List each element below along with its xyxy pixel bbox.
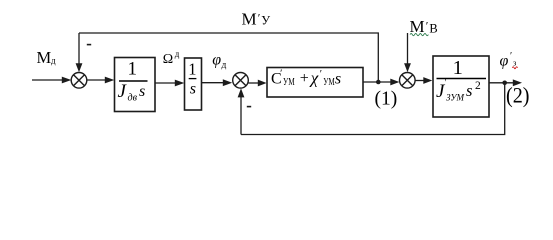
svg-text:s: s: [466, 81, 472, 100]
spell squiggle under phi'z subscript: [512, 67, 517, 69]
label phi'z (output): [500, 51, 518, 70]
svg-text:дв: дв: [128, 92, 138, 103]
svg-text:д: д: [175, 49, 180, 59]
label Omega^d: [163, 49, 180, 67]
svg-text:(2): (2): [506, 84, 530, 108]
summing junction S3: [400, 73, 416, 89]
block G4 fraction bar: [437, 78, 487, 80]
svg-text:УМ: УМ: [283, 77, 295, 88]
block G4 box: [433, 56, 489, 117]
wire bottom feedback from node B down and left: [241, 83, 505, 135]
svg-text:УМ: УМ: [323, 77, 335, 88]
wire input arrow into summer S1: [32, 77, 71, 84]
svg-text:′: ′: [445, 78, 447, 88]
label phi_d: [212, 51, 226, 70]
svg-text:У: У: [261, 14, 270, 28]
svg-text:М: М: [37, 48, 52, 67]
svg-text:′: ′: [510, 51, 512, 62]
svg-text:φ: φ: [500, 53, 509, 70]
svg-text:φ: φ: [212, 51, 221, 68]
grammar squiggle under M'v: [410, 34, 428, 36]
svg-text:д: д: [51, 55, 56, 65]
wire bottom feedback up into S2: [238, 88, 245, 134]
wire S1 to block G1: [87, 77, 114, 84]
block G1 denominator J dv s: [118, 81, 146, 103]
svg-text:ЗУМ: ЗУМ: [446, 93, 465, 103]
svg-text:В: В: [429, 21, 437, 35]
svg-text:д: д: [222, 60, 227, 70]
minus sign at S2: [247, 106, 251, 108]
svg-text:(1): (1): [375, 88, 398, 109]
svg-text:1: 1: [453, 57, 463, 79]
svg-text:1: 1: [188, 59, 196, 78]
svg-text:s: s: [190, 81, 196, 98]
wire G1 to G2: [156, 80, 185, 87]
svg-text:2: 2: [475, 80, 481, 92]
wire G2 to summer S2: [202, 79, 233, 86]
svg-text:М: М: [242, 9, 257, 28]
block G3 text C'um + chi'um s: [271, 69, 341, 89]
wire feedback M'u down into S1: [76, 33, 83, 72]
node A junction dot: [376, 80, 381, 85]
label M'u (top feedback): [242, 9, 271, 28]
summing junction S2: [233, 73, 249, 89]
block G4 denominator J'zum s^2: [436, 78, 481, 103]
wire S2 to block G3: [249, 80, 267, 87]
summing junction S1: [71, 73, 87, 89]
block G3 box: [267, 68, 363, 98]
block G2 box: [185, 58, 202, 110]
block G2 fraction bar: [189, 78, 197, 80]
wire S3 to block G4: [415, 77, 432, 84]
svg-text:′: ′: [426, 19, 429, 33]
svg-text:Ω: Ω: [163, 52, 173, 67]
svg-text:′: ′: [320, 69, 322, 80]
wire G3 to summer S3: [363, 79, 399, 86]
label Md (input torque): [37, 48, 57, 67]
block G1 box: [115, 58, 156, 112]
svg-text:+: +: [300, 70, 309, 87]
svg-text:χ: χ: [309, 69, 319, 88]
wire G4 to output: [490, 79, 523, 86]
svg-text:1: 1: [128, 59, 138, 80]
svg-text:s: s: [335, 71, 341, 88]
label M'v (disturbance): [410, 17, 438, 36]
node B junction dot: [502, 81, 507, 86]
svg-text:s: s: [139, 83, 145, 100]
wire M'v down into S3: [404, 33, 411, 72]
block G1 fraction bar: [119, 80, 148, 82]
minus sign at S1: [87, 44, 91, 46]
wire top feedback from node A up and left: [79, 33, 378, 81]
